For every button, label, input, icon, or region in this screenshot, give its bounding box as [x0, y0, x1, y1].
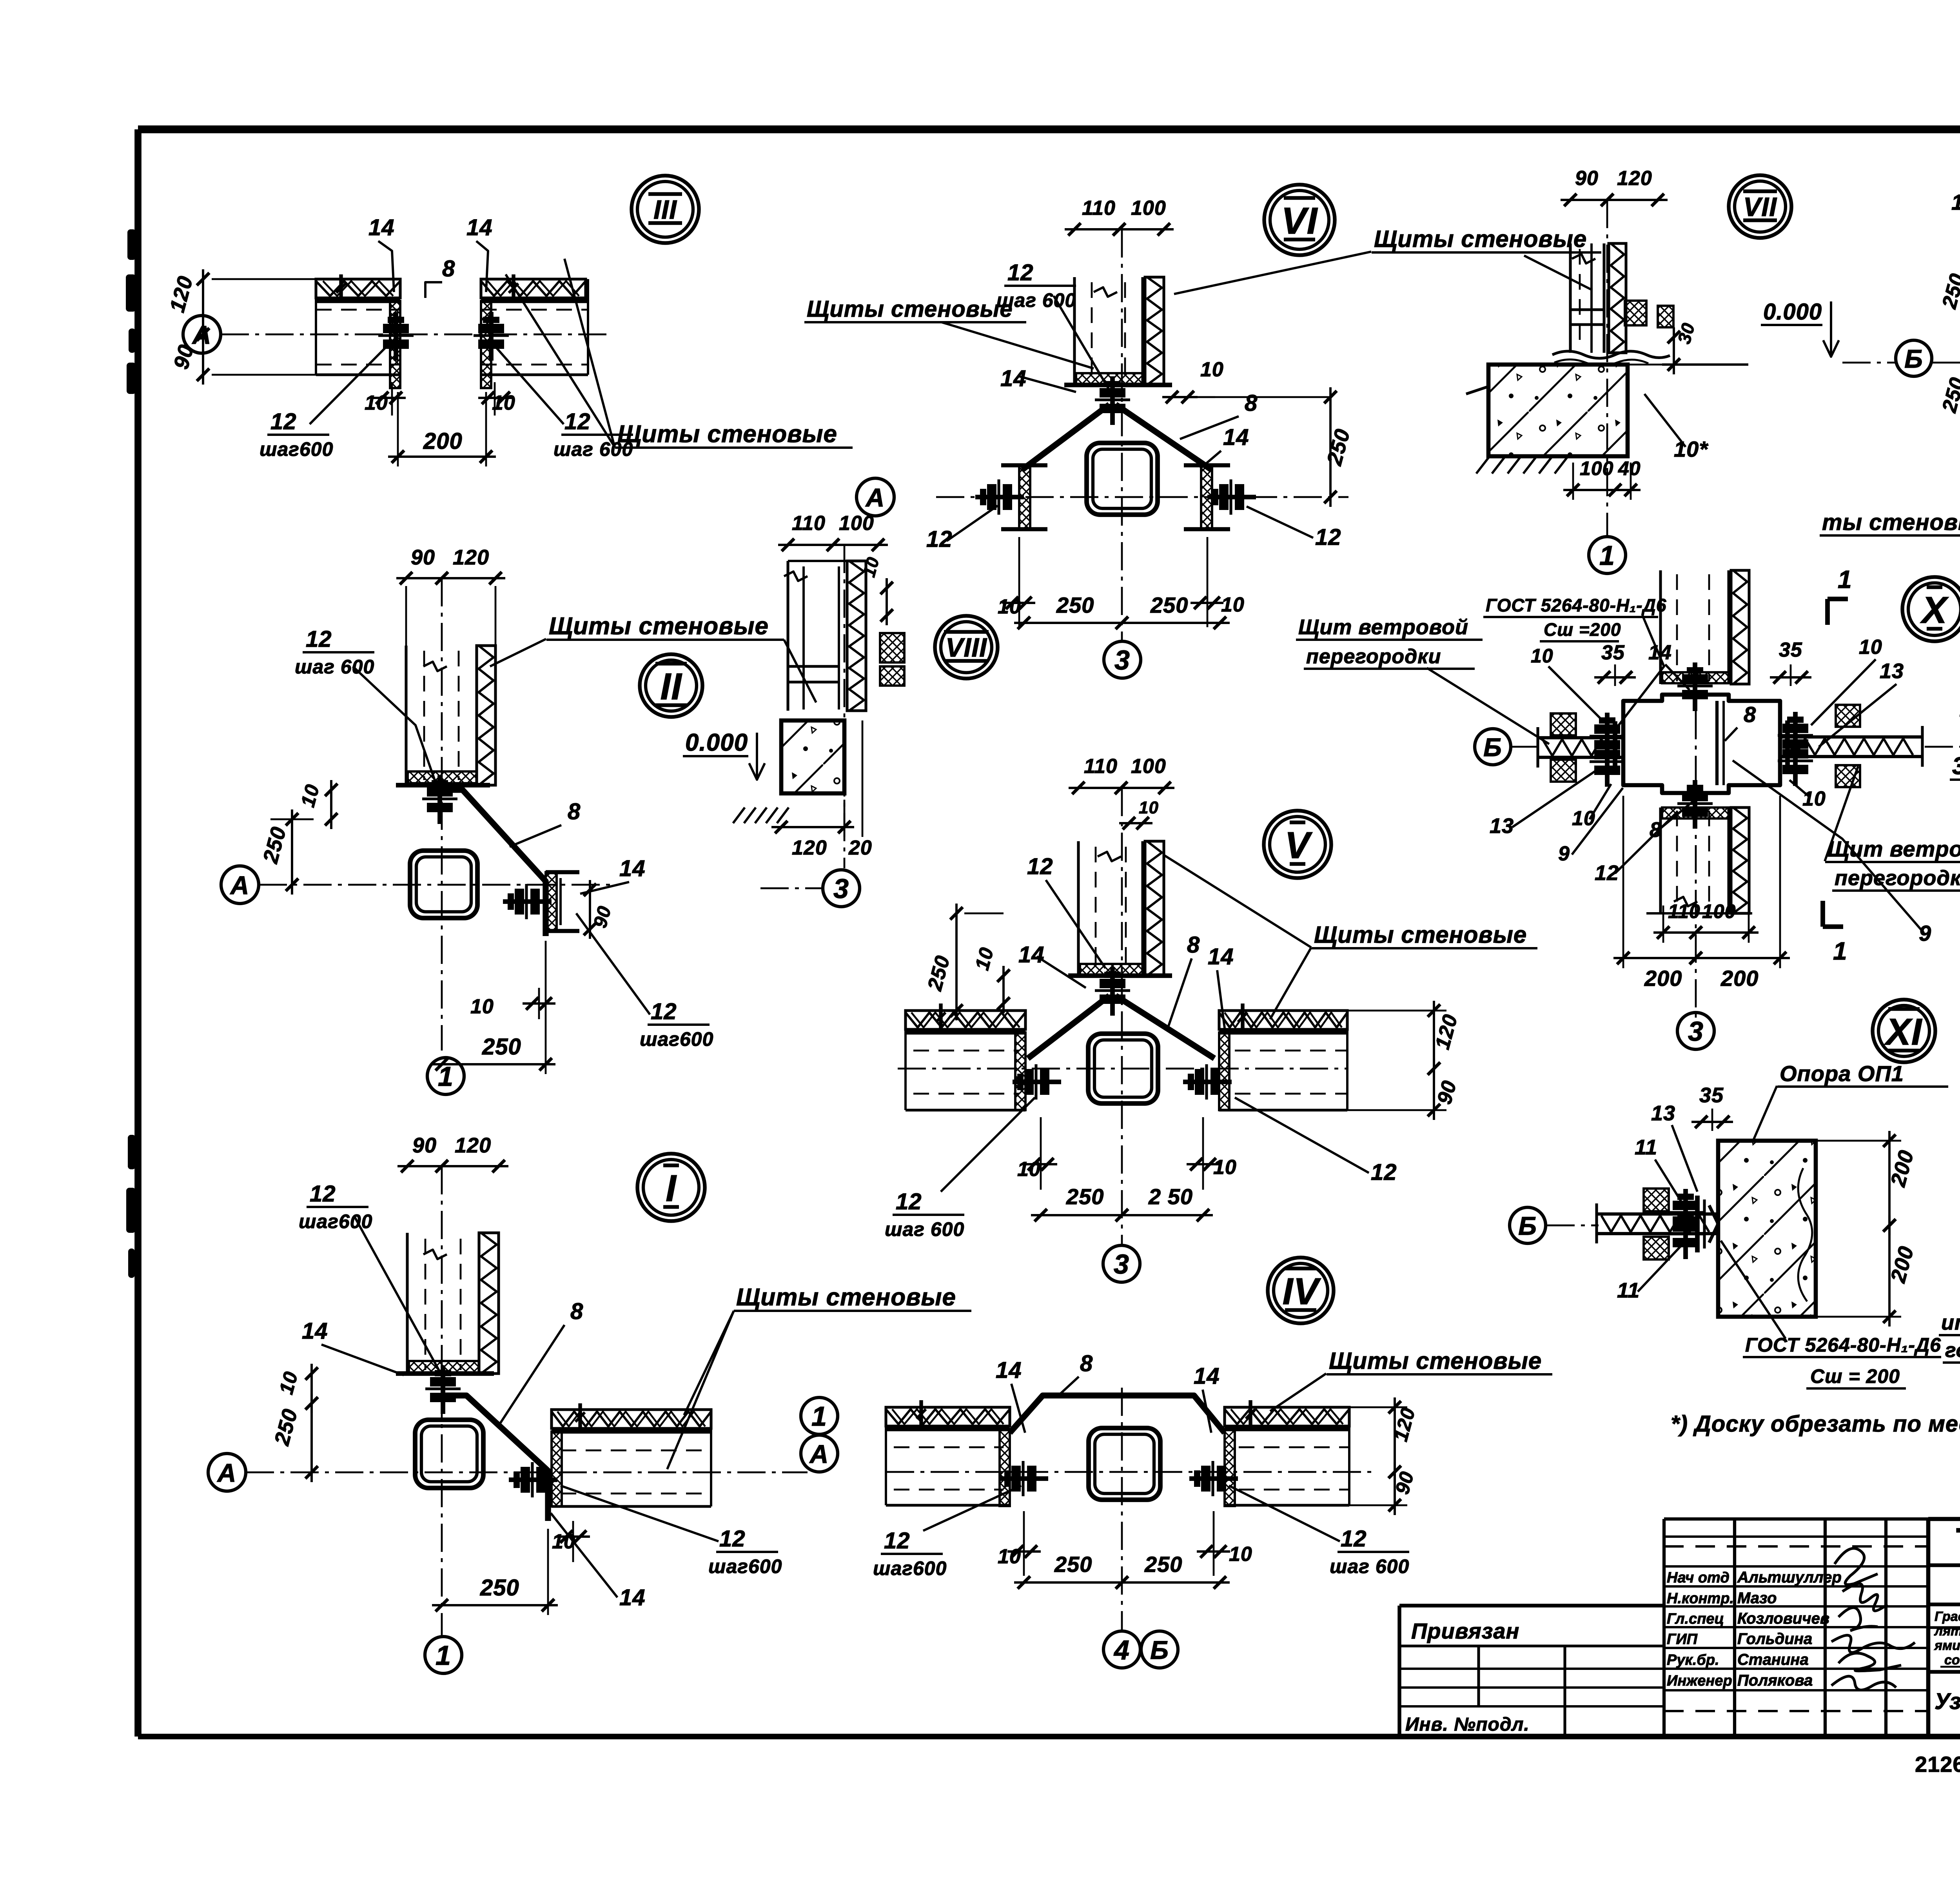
svg-text:35: 35 [1601, 641, 1625, 664]
svg-text:250: 250 [1056, 593, 1094, 617]
svg-text:12: 12 [270, 409, 297, 434]
svg-text:ГОСТ 5264-80-Н₁-Д6: ГОСТ 5264-80-Н₁-Д6 [1486, 595, 1666, 615]
svg-text:14: 14 [466, 215, 493, 240]
svg-text:250: 250 [1054, 1552, 1092, 1577]
svg-text:Щиты стеновые: Щиты стеновые [1314, 922, 1527, 948]
svg-text:14: 14 [619, 856, 646, 881]
svg-text:100: 100 [1131, 197, 1166, 220]
svg-text:Опора ОП1: Опора ОП1 [1780, 1061, 1904, 1086]
svg-text:Станина: Станина [1737, 1651, 1809, 1668]
svg-text:Гольдина: Гольдина [1737, 1630, 1812, 1648]
svg-text:110: 110 [792, 512, 826, 535]
svg-text:перегородки: перегородки [1306, 645, 1441, 668]
svg-text:12: 12 [896, 1189, 922, 1214]
svg-text:А: А [865, 483, 885, 512]
svg-text:шаг600: шаг600 [260, 438, 333, 460]
svg-text:250: 250 [1150, 593, 1188, 617]
svg-text:VIII: VIII [946, 633, 987, 662]
svg-text:10: 10 [1200, 358, 1224, 381]
svg-text:8: 8 [568, 799, 581, 824]
svg-text:35: 35 [1779, 639, 1802, 661]
svg-text:Инженер: Инженер [1667, 1673, 1732, 1689]
svg-text:Щит ветровой: Щит ветровой [1298, 615, 1468, 639]
svg-text:Щиты стеновые: Щиты стеновые [1329, 1348, 1542, 1374]
svg-text:12: 12 [1371, 1160, 1397, 1185]
svg-text:14: 14 [619, 1585, 646, 1610]
svg-text:13: 13 [1490, 814, 1514, 838]
svg-text:40: 40 [1618, 457, 1641, 479]
svg-text:ты стеновые: ты стеновые [1822, 510, 1960, 535]
svg-text:Рук.бр.: Рук.бр. [1667, 1652, 1719, 1668]
svg-text:11: 11 [1635, 1136, 1657, 1159]
svg-text:35: 35 [1699, 1083, 1724, 1107]
svg-text:110: 110 [1082, 197, 1116, 220]
svg-text:110: 110 [1668, 900, 1700, 922]
svg-text:1: 1 [1833, 937, 1847, 965]
svg-text:12: 12 [564, 409, 591, 434]
svg-text:перегородки: перегородки [1835, 866, 1960, 890]
svg-text:12: 12 [884, 1528, 910, 1553]
svg-text:3: 3 [1114, 645, 1130, 675]
svg-text:VI: VI [1281, 200, 1318, 242]
svg-text:Инв. №подл.: Инв. №подл. [1405, 1714, 1530, 1735]
svg-text:Узлы крепления обшивки: Узлы крепления обшивки [1935, 1689, 1960, 1714]
svg-text:120: 120 [1617, 167, 1652, 190]
svg-text:20: 20 [848, 837, 872, 859]
svg-text:110: 110 [1084, 755, 1118, 778]
svg-text:11: 11 [1617, 1279, 1640, 1302]
svg-text:ТП 901-Б- 92с.86 АС: ТП 901-Б- 92с.86 АС [1956, 1521, 1960, 1561]
svg-text:12: 12 [1007, 260, 1034, 285]
svg-text:Щиты стеновые: Щиты стеновые [807, 296, 1013, 322]
svg-text:А: А [809, 1439, 829, 1468]
svg-text:Козловичев: Козловичев [1737, 1610, 1829, 1627]
svg-text:8: 8 [1080, 1351, 1093, 1376]
svg-text:ГОСТ 5264-80-Н₁-Д6: ГОСТ 5264-80-Н₁-Д6 [1745, 1334, 1941, 1356]
svg-text:А: А [217, 1458, 237, 1487]
svg-text:120: 120 [792, 837, 827, 859]
svg-text:200: 200 [1720, 966, 1759, 991]
svg-text:шаг600: шаг600 [873, 1557, 947, 1579]
svg-text:Щиты стеновые: Щиты стеновые [1374, 226, 1587, 252]
svg-text:120: 120 [453, 546, 489, 569]
svg-text:II: II [660, 666, 682, 708]
svg-text:100: 100 [1580, 457, 1613, 479]
svg-text:14: 14 [368, 215, 395, 240]
svg-text:1: 1 [1599, 540, 1615, 571]
svg-text:I: I [666, 1167, 677, 1209]
svg-text:Альтшуллер: Альтшуллер [1737, 1569, 1842, 1586]
svg-text:21268-82: 21268-82 [1915, 1752, 1960, 1777]
svg-text:90: 90 [412, 1134, 437, 1157]
svg-text:Щиты стеновые: Щиты стеновые [617, 421, 837, 448]
svg-text:12: 12 [1027, 854, 1053, 879]
svg-text:12: 12 [1315, 524, 1341, 550]
svg-text:10: 10 [552, 1530, 575, 1553]
svg-text:10: 10 [470, 995, 494, 1018]
svg-text:9: 9 [1558, 842, 1570, 865]
svg-text:Щиты стеновые: Щиты стеновые [549, 613, 769, 640]
svg-text:3: 3 [1688, 1016, 1704, 1047]
svg-text:со стальным каркасом: со стальным каркасом [1944, 1653, 1960, 1668]
svg-text:10: 10 [1221, 593, 1245, 616]
svg-text:100: 100 [1702, 900, 1736, 922]
svg-text:1: 1 [436, 1640, 451, 1671]
svg-text:14: 14 [302, 1318, 328, 1344]
svg-text:Б: Б [1150, 1635, 1169, 1664]
svg-text:ями площадью 192 м²: ями площадью 192 м² [1934, 1638, 1960, 1653]
svg-text:100: 100 [1131, 755, 1166, 778]
svg-text:шаг 600: шаг 600 [885, 1218, 964, 1240]
svg-text:4: 4 [1113, 1635, 1130, 1665]
svg-text:Привязан: Привязан [1411, 1619, 1519, 1643]
svg-text:14: 14 [1223, 425, 1249, 450]
svg-text:1: 1 [811, 1401, 827, 1432]
svg-text:10: 10 [1859, 636, 1882, 659]
svg-text:12: 12 [306, 626, 332, 652]
svg-text:VII: VII [1743, 192, 1777, 222]
svg-text:шаг600: шаг600 [708, 1555, 782, 1577]
svg-text:10: 10 [1139, 798, 1159, 817]
svg-text:1: 1 [438, 1061, 454, 1092]
svg-text:12: 12 [310, 1181, 336, 1207]
svg-text:90: 90 [1575, 167, 1599, 190]
svg-text:8: 8 [1744, 702, 1756, 727]
svg-text:1: 1 [1838, 565, 1852, 593]
svg-text:90: 90 [411, 546, 435, 569]
svg-text:8: 8 [570, 1299, 583, 1324]
svg-text:250: 250 [1144, 1552, 1182, 1577]
svg-text:XI: XI [1884, 1011, 1923, 1053]
svg-text:8: 8 [1245, 390, 1258, 416]
svg-text:А: А [230, 871, 250, 900]
svg-text:14: 14 [1194, 1363, 1220, 1389]
svg-text:шаг600: шаг600 [640, 1028, 713, 1050]
svg-text:Гл.спец: Гл.спец [1667, 1611, 1724, 1627]
svg-text:Б: Б [1483, 733, 1502, 762]
svg-text:Б: Б [1518, 1211, 1537, 1240]
svg-text:14: 14 [1951, 190, 1960, 214]
svg-text:200: 200 [423, 428, 463, 454]
svg-text:ит ветровой: ит ветровой [1941, 1311, 1960, 1334]
svg-text:14: 14 [1000, 366, 1027, 391]
svg-text:12: 12 [719, 1526, 746, 1552]
svg-text:ляторами 2ВГ70 каландрная с се: ляторами 2ВГ70 каландрная с секци- [1934, 1624, 1960, 1639]
svg-text:10*: 10* [1674, 437, 1708, 461]
svg-text:14: 14 [1208, 944, 1234, 969]
svg-text:250: 250 [482, 1034, 521, 1060]
svg-text:2 50: 2 50 [1148, 1184, 1193, 1209]
svg-text:3.200: 3.200 [1952, 753, 1960, 780]
svg-text:Полякова: Полякова [1737, 1672, 1813, 1689]
svg-text:Нач отд: Нач отд [1667, 1570, 1730, 1586]
svg-text:Б: Б [1904, 344, 1923, 373]
svg-text:250: 250 [1066, 1184, 1104, 1209]
svg-text:12: 12 [1341, 1526, 1367, 1552]
svg-text:0.000: 0.000 [685, 729, 748, 756]
svg-text:8: 8 [1187, 932, 1200, 958]
svg-text:Мазо: Мазо [1737, 1590, 1777, 1607]
svg-text:8: 8 [442, 256, 455, 281]
svg-text:13: 13 [1651, 1102, 1675, 1125]
svg-text:Н.контр.: Н.контр. [1667, 1590, 1734, 1607]
svg-text:10: 10 [1229, 1543, 1252, 1566]
svg-text:IV: IV [1283, 1270, 1321, 1312]
svg-text:10: 10 [998, 1545, 1021, 1568]
svg-text:Щиты стеновые: Щиты стеновые [736, 1284, 956, 1311]
svg-text:14: 14 [996, 1357, 1022, 1383]
svg-text:250: 250 [480, 1575, 519, 1601]
svg-text:Сш =200: Сш =200 [1544, 619, 1621, 640]
svg-text:3: 3 [833, 873, 849, 904]
svg-text:шаг 600: шаг 600 [1330, 1555, 1409, 1577]
svg-text:III: III [653, 195, 677, 225]
svg-text:10: 10 [1531, 645, 1553, 667]
svg-text:13: 13 [1880, 659, 1904, 683]
svg-text:0.000: 0.000 [1763, 299, 1822, 325]
svg-text:V: V [1285, 824, 1312, 866]
svg-text:Сш = 200: Сш = 200 [1810, 1365, 1900, 1387]
svg-text:120: 120 [455, 1134, 491, 1157]
svg-text:3: 3 [1114, 1249, 1129, 1279]
svg-text:9: 9 [1919, 921, 1931, 945]
svg-text:14: 14 [1018, 942, 1045, 967]
svg-text:200: 200 [1644, 966, 1682, 991]
svg-text:10: 10 [1572, 807, 1595, 830]
svg-text:*) Доску обрезать по месту в м: *) Доску обрезать по месту в местах креп… [1671, 1411, 1960, 1437]
svg-text:Градирня двухсекционная с вент: Градирня двухсекционная с венти- [1935, 1609, 1960, 1624]
svg-text:10: 10 [1802, 788, 1826, 810]
svg-text:Щит ветровой: Щит ветровой [1828, 837, 1960, 861]
svg-text:14: 14 [1648, 641, 1672, 664]
svg-text:ГИП: ГИП [1667, 1631, 1698, 1648]
svg-text:X: X [1920, 589, 1949, 631]
svg-text:городки: городки [1945, 1339, 1960, 1362]
svg-text:12: 12 [651, 999, 677, 1024]
